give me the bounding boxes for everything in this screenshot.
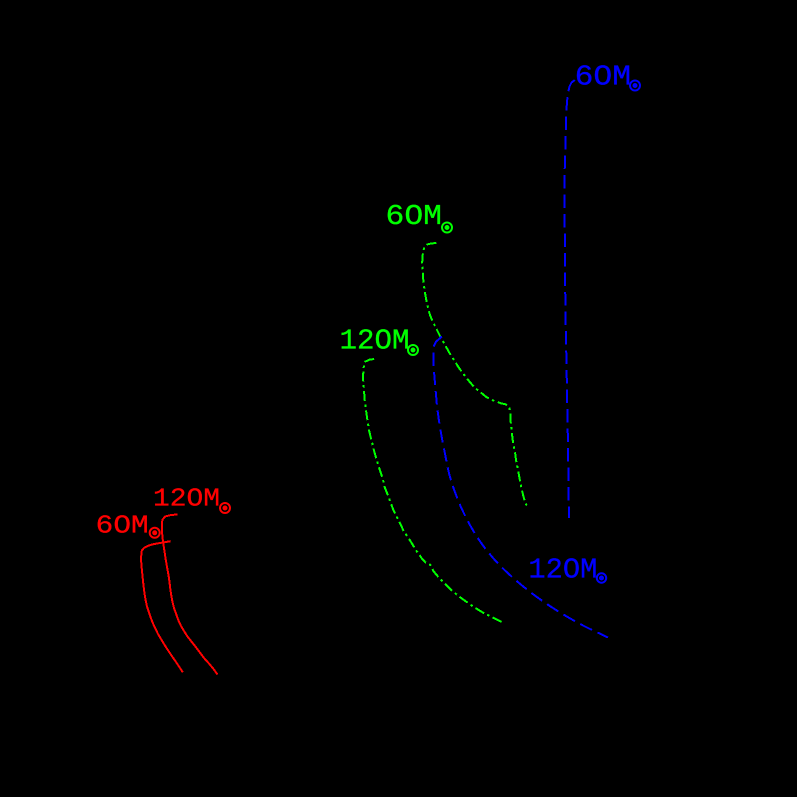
solar symbol blue 60 [630, 81, 640, 91]
solar symbol green 120 [408, 345, 418, 355]
solar symbol red 60 [150, 528, 160, 538]
svg-text:12OM: 12OM [340, 325, 410, 358]
svg-text:12OM: 12OM [153, 484, 220, 514]
green dash-dot track 60Msun [422, 243, 527, 506]
red solid track 120Msun [162, 515, 218, 675]
svg-text:6OM: 6OM [386, 200, 443, 233]
green dash-dot track 120Msun [363, 359, 504, 624]
solar symbol red 120 [220, 503, 230, 513]
blue dashed track 120Msun [433, 337, 608, 638]
blue dashed track 60Msun [564, 80, 575, 518]
red solid track 60Msun [141, 541, 183, 672]
svg-text:6OM: 6OM [575, 61, 632, 94]
solar symbol green 60 [442, 223, 452, 233]
solar symbol blue 120 [597, 573, 606, 582]
svg-text:6OM: 6OM [96, 511, 149, 541]
svg-text:12OM: 12OM [528, 554, 597, 587]
